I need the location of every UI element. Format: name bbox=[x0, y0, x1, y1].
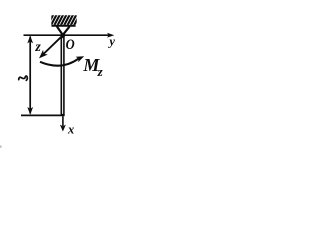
dimension top arrowhead bbox=[27, 36, 33, 44]
x axis arrow bbox=[62, 116, 64, 126]
svg-text:O: O bbox=[66, 36, 75, 52]
scan speck (bottom-left corner) bbox=[0, 146, 2, 148]
y axis line bbox=[24, 34, 110, 36]
dimension bottom tick bbox=[21, 114, 65, 116]
label l (rotated script ell) bbox=[19, 76, 28, 80]
rod (shaft) bbox=[61, 37, 64, 114]
svg-text:z: z bbox=[34, 40, 41, 55]
dimension line l (vertical) bbox=[29, 37, 31, 114]
Mz arc arrowhead bbox=[76, 56, 85, 62]
ceiling hatch block bbox=[48, 14, 80, 25]
origin pivot dot O bbox=[60, 33, 65, 38]
support bracket V bbox=[57, 27, 69, 34]
ceiling baseline bbox=[52, 25, 76, 27]
z axis line bbox=[44, 35, 63, 54]
Mz torque arc bbox=[40, 58, 79, 65]
dimension bottom arrowhead bbox=[27, 107, 33, 115]
y axis arrowhead bbox=[107, 33, 114, 38]
z axis arrowhead bbox=[39, 50, 48, 59]
svg-text:x: x bbox=[67, 122, 74, 136]
svg-text:z: z bbox=[97, 64, 104, 79]
svg-text:y: y bbox=[107, 34, 115, 48]
